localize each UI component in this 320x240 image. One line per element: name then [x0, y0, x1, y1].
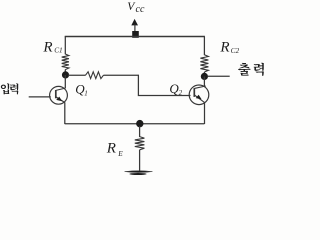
- wire emitter rail: [65, 123, 205, 125]
- wire RC2 to node C: [203, 72, 205, 77]
- label input 입력: [1, 83, 19, 94]
- resistor RC1: [62, 54, 69, 70]
- svg-text:1: 1: [84, 90, 88, 98]
- svg-text:R: R: [106, 141, 116, 157]
- node Vcc junction square: [132, 31, 139, 38]
- label output 출력: [238, 63, 264, 76]
- resistor coupling (node A to Q2 base): [68, 72, 139, 79]
- svg-text:C2: C2: [231, 46, 240, 55]
- svg-text:2: 2: [179, 89, 183, 97]
- wire input lead to Q1 base: [29, 96, 51, 98]
- wire RC1 to node A: [64, 70, 66, 76]
- wire output lead: [208, 75, 230, 77]
- wire node C to Q2 collector: [203, 77, 205, 87]
- node B junction dot: [136, 120, 143, 127]
- transistor Q1: [50, 86, 68, 104]
- wire step down to Q2 base: [138, 75, 190, 95]
- ground: [125, 171, 153, 175]
- svg-text:C1: C1: [54, 45, 63, 54]
- wire Vcc top rail: [65, 36, 205, 38]
- wire right vertical: [203, 37, 205, 56]
- wire node A to Q1 collector: [64, 75, 66, 88]
- svg-text:R: R: [42, 39, 52, 55]
- svg-text:cc: cc: [136, 4, 145, 15]
- wire Q1 emitter down: [64, 102, 66, 124]
- resistor RC2: [200, 55, 208, 72]
- svg-text:R: R: [219, 39, 229, 55]
- node C junction dot: [201, 73, 208, 80]
- resistor RE: [135, 126, 145, 171]
- wire Q2 emitter down: [204, 102, 206, 124]
- node A junction dot: [62, 71, 69, 78]
- transistor Q2: [189, 85, 209, 105]
- Vcc supply arrow: [131, 19, 138, 26]
- svg-text:E: E: [117, 149, 123, 158]
- wire left vertical: [64, 37, 66, 55]
